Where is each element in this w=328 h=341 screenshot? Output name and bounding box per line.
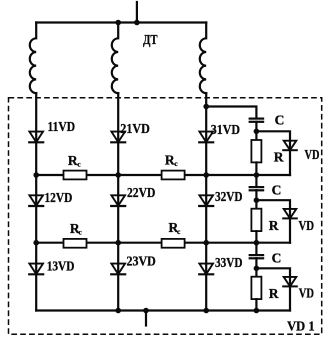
inductor L3: [200, 23, 206, 94]
wire bottom bus: [36, 309, 290, 311]
node tap col3: [203, 104, 209, 110]
diode 32VD: [199, 195, 213, 206]
diode 31VD: [199, 132, 213, 143]
diode VD snubber1: [283, 141, 297, 175]
diode 22VD: [111, 195, 125, 206]
node B col2: [115, 240, 121, 246]
svg-text:21VD: 21VD: [120, 121, 150, 136]
diode VD snubber3: [283, 277, 297, 311]
resistor Rc B2: [162, 239, 185, 248]
diode 11VD: [29, 132, 43, 143]
svg-text:C: C: [272, 183, 282, 198]
wire column 1: [35, 93, 37, 310]
wire snubber2 R bottom: [255, 231, 257, 243]
diode VD snubber2: [283, 209, 297, 243]
inductor L2: [112, 23, 118, 94]
diode 23VD: [111, 264, 125, 275]
inductor L1: [30, 23, 36, 94]
dashed enclosure VD1: [9, 98, 322, 334]
svg-text:C: C: [275, 113, 285, 128]
resistor R snubber2: [251, 209, 261, 231]
node snubber2 junction: [254, 197, 260, 203]
wire column 3: [205, 93, 207, 310]
svg-text:R: R: [269, 286, 279, 301]
diode 13VD: [29, 264, 43, 275]
wire top bus: [36, 21, 206, 23]
wire column 2: [117, 93, 119, 310]
resistor Rc A1: [64, 171, 87, 180]
node bus col3: [203, 308, 209, 314]
svg-text:C: C: [272, 251, 282, 266]
wire snubber1 R bottom: [255, 162, 257, 175]
node A col1: [33, 172, 39, 178]
resistor Rc A2: [162, 171, 185, 180]
resistor Rc B1: [64, 239, 87, 248]
wire snubber2 branch: [256, 200, 290, 218]
wire row A: [36, 174, 290, 176]
diode 33VD: [199, 264, 213, 275]
node bus output: [143, 308, 149, 314]
wire snubber3 R bottom: [255, 299, 257, 310]
svg-text:12VD: 12VD: [45, 190, 73, 205]
node snubber3 junction: [254, 266, 260, 272]
svg-text:VD 1: VD 1: [287, 319, 315, 334]
svg-text:11VD: 11VD: [48, 119, 76, 134]
svg-text:22VD: 22VD: [127, 185, 156, 200]
node A col2: [115, 172, 121, 178]
svg-text:13VD: 13VD: [47, 258, 75, 273]
wire snubber3 branch: [256, 268, 290, 286]
svg-text:VD: VD: [299, 218, 315, 233]
resistor R snubber1: [251, 140, 261, 162]
node B col1: [33, 240, 39, 246]
wire input stub: [136, 2, 138, 23]
capacitor C1: [250, 119, 263, 122]
wire snubber3 mid: [255, 243, 257, 277]
svg-text:32VD: 32VD: [215, 189, 243, 204]
capacitor C3: [250, 255, 263, 258]
wire row B: [36, 242, 290, 244]
node snubber1 junction: [254, 129, 260, 135]
node bus col2: [115, 308, 121, 314]
wire output stub: [145, 311, 147, 326]
node top col2: [115, 20, 121, 26]
capacitor C2: [250, 187, 263, 190]
node top input: [134, 20, 140, 26]
diode 12VD: [29, 195, 43, 206]
node bus snubber: [254, 308, 260, 314]
svg-text:31VD: 31VD: [211, 122, 240, 137]
wire snubber1 tap: [206, 107, 256, 119]
node A snubber: [254, 172, 260, 178]
node A col3: [203, 172, 209, 178]
svg-text:VD: VD: [299, 286, 314, 301]
node B col3: [203, 240, 209, 246]
svg-text:ДТ: ДТ: [143, 32, 158, 47]
diode 21VD: [111, 132, 125, 143]
wire snubber1 branch: [256, 131, 290, 150]
svg-text:33VD: 33VD: [215, 255, 243, 270]
resistor R snubber3: [251, 277, 261, 299]
svg-text:23VD: 23VD: [127, 253, 156, 268]
svg-text:R: R: [269, 218, 279, 233]
svg-text:R: R: [274, 149, 284, 164]
node B snubber: [254, 240, 260, 246]
wire snubber2 mid: [255, 175, 257, 209]
svg-text:VD: VD: [305, 147, 320, 162]
wire snubber1 mid: [255, 122, 257, 140]
